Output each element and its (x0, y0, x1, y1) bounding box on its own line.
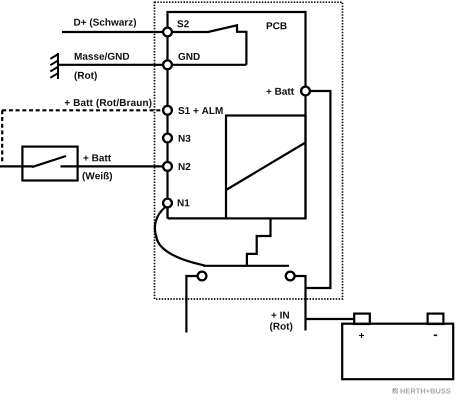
label + Batt (PCB) (266, 88, 294, 95)
relay contact (left) (198, 272, 207, 281)
wire: + Batt loop right and down (306, 91, 331, 288)
label N1 (178, 199, 190, 206)
wire: dashed vertical stub at left edge (1, 110, 3, 163)
battery body (342, 324, 453, 380)
wire: horizontal line from N1 drop to module (168, 217, 227, 219)
wire: right vertical line from top edge down to module bottom (304, 11, 306, 219)
wire: N1 drop to module bottom line (166, 207, 168, 218)
battery post (+) (354, 314, 370, 324)
wire: GND return horizontal (172, 64, 246, 66)
wire: left contact lead down (186, 276, 197, 333)
wire: staircase from module bottom to relay blade (247, 218, 271, 266)
wire: terminal bus vertical line (166, 12, 168, 218)
terminal S1 + ALM (163, 106, 172, 115)
wire: S2 internal switch blade and contact drop (172, 25, 246, 65)
battery post (-) (428, 314, 444, 324)
terminal N2 (163, 162, 172, 171)
wire: right contact lead to output (295, 276, 306, 331)
label S1 + ALM (178, 107, 222, 114)
label N3 (179, 135, 191, 142)
relay contact (right) (286, 272, 295, 281)
wire: left lead into switch box (0, 165, 33, 167)
label PCB (267, 22, 287, 29)
wire: curved lead from N1 to relay blade (155, 207, 205, 266)
label (Rot) (75, 72, 97, 81)
wire: Masse/GND lead (58, 64, 168, 66)
label S2 (177, 20, 189, 27)
wire: top edge of internal solid outline (166, 11, 305, 13)
label Masse/GND (75, 52, 129, 59)
PCB dashed boundary box (155, 2, 343, 299)
+ Batt terminal circle on PCB (301, 87, 310, 96)
module diagonal line (226, 143, 306, 191)
logo text HERTH+BUSS (400, 388, 450, 393)
terminal N1 (163, 199, 172, 208)
label GND (178, 53, 199, 60)
label battery plus (359, 333, 364, 338)
logo icon (393, 388, 399, 393)
label (Weiss) (83, 172, 113, 181)
electronics module box (226, 116, 306, 219)
wire: dashed + Batt (Rot/Braun) lead to S1 (2, 109, 167, 111)
terminal S2 (163, 28, 172, 37)
label D+ (Schwarz) (74, 18, 136, 27)
ground (chassis) symbol (50, 53, 58, 79)
relay blade bar (203, 265, 289, 267)
terminal GND (163, 60, 172, 69)
terminal N3 (163, 134, 172, 143)
label (Rot) battery feed (270, 322, 292, 331)
label N2 (179, 163, 191, 170)
label + Batt (Weiss row) (83, 154, 111, 161)
wire: + IN feed to battery (306, 318, 355, 320)
wire: switch contact lead to N2 (61, 165, 168, 167)
switch blade inside box (32, 156, 66, 167)
battery minus mark (434, 335, 438, 337)
switch box (solid rectangle) (22, 147, 77, 181)
label + IN (271, 312, 289, 319)
wire: D+ lead to S2 (62, 31, 168, 33)
label + Batt (Rot/Braun) (65, 99, 152, 108)
